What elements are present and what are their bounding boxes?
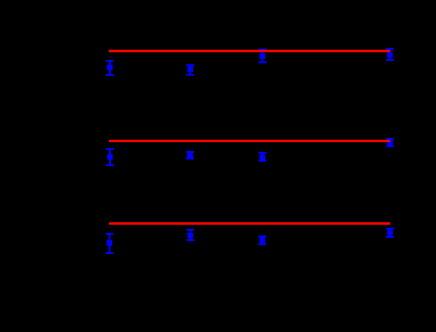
data point panel2 pt2 with error bar [186,152,194,159]
data point panel3 pt3 with error bar [258,237,266,245]
data point panel2 pt4 with error bar [386,139,394,146]
data point panel3 pt4 with error bar [386,229,394,237]
fit line panel 3 [109,222,390,224]
fit line panel 1 [109,50,390,52]
data point panel3 pt2 with error bar [186,230,194,240]
fit line panel 2 [109,140,390,142]
data point panel3 pt1 with error bar [106,234,114,253]
data point panel1 pt2 with error bar [186,65,194,75]
data point panel1 pt4 with error bar [386,49,394,60]
data point panel2 pt3 with error bar [258,153,266,161]
data point panel2 pt1 with error bar [106,149,114,165]
data point panel1 pt1 with error bar [106,61,114,75]
data point panel1 pt3 with error bar [258,50,266,63]
